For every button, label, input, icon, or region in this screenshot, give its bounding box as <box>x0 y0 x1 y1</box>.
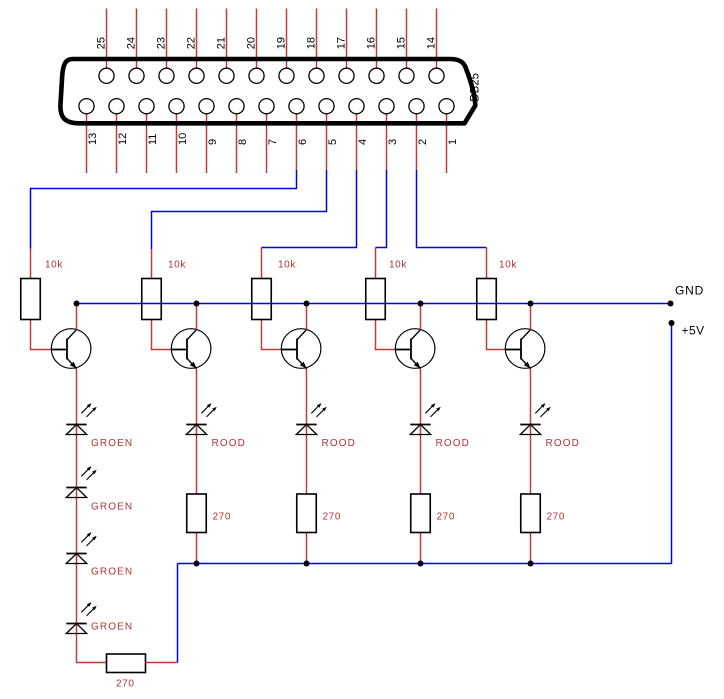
svg-text:1: 1 <box>447 139 459 145</box>
pin 2 <box>409 99 424 114</box>
wire 10k top lead column 5 <box>486 248 488 279</box>
wire emitter column 2 down to +5V bus <box>196 369 198 564</box>
wire pin 5 to 10k resistor column 2 <box>152 170 327 249</box>
svg-text:10k: 10k <box>168 260 186 271</box>
wire pin 12 stub <box>116 106 118 173</box>
svg-text:+5V: +5V <box>682 324 705 338</box>
svg-text:ROOD: ROOD <box>212 438 246 449</box>
wire pin 8 stub <box>236 106 238 173</box>
node junction GND bus <box>418 301 424 307</box>
node junction GND bus <box>194 301 200 307</box>
wire pin 10 stub <box>176 106 178 173</box>
svg-text:23: 23 <box>155 37 167 49</box>
resistor 270 column 4 <box>411 494 431 533</box>
LED D1d green <box>66 624 86 634</box>
LED D5 red <box>520 425 540 435</box>
svg-text:GROEN: GROEN <box>91 502 133 513</box>
wire pin 6 stub <box>296 106 298 170</box>
pin 6 <box>289 99 304 114</box>
wire 10k bottom to base Q1 <box>31 320 52 350</box>
wire emitter column 4 down to +5V bus <box>420 369 422 564</box>
wire pin 4 stub <box>356 106 358 170</box>
svg-text:ROOD: ROOD <box>436 438 470 449</box>
svg-text:270: 270 <box>323 512 342 523</box>
wire collector Q2 to GND bus <box>196 304 198 330</box>
LED D2 red <box>186 425 206 435</box>
svg-text:10: 10 <box>177 133 189 145</box>
node GND terminal <box>668 301 674 307</box>
svg-text:10k: 10k <box>278 260 296 271</box>
svg-text:10k: 10k <box>389 260 407 271</box>
node junction +5V bus <box>418 561 424 567</box>
resistor 270 column 2 <box>187 494 207 533</box>
pin 7 <box>259 99 274 114</box>
wire pin 14 stub <box>436 9 438 76</box>
transistor Q2 <box>171 329 211 369</box>
wire pin 13 stub <box>86 106 88 173</box>
resistor 10k column 4 <box>366 279 386 320</box>
svg-text:270: 270 <box>116 679 135 690</box>
svg-text:12: 12 <box>117 133 129 145</box>
pin 11 <box>139 99 154 114</box>
svg-text:20: 20 <box>245 37 257 49</box>
wire pin 2 stub <box>416 106 418 170</box>
svg-text:6: 6 <box>297 139 309 145</box>
wire resistor 270 column 1 to +5V bus <box>146 662 178 664</box>
pin 22 <box>189 68 204 83</box>
svg-text:DB25: DB25 <box>470 73 482 102</box>
wire pin 9 stub <box>206 106 208 173</box>
node junction GND bus <box>74 301 80 307</box>
wire 10k bottom to base Q3 <box>262 320 282 350</box>
svg-text:GND: GND <box>675 284 704 298</box>
LED D4 red <box>410 425 430 435</box>
wire pin 4 to 10k resistor column 3 <box>262 170 357 248</box>
pin 13 <box>79 99 94 114</box>
pin 19 <box>279 68 294 83</box>
wire 10k bottom to base Q2 <box>152 320 172 350</box>
wire collector Q4 to GND bus <box>420 304 422 330</box>
wire collector Q3 to GND bus <box>306 304 308 330</box>
wire pin 19 stub <box>286 9 288 76</box>
wire collector Q5 to GND bus <box>530 304 532 330</box>
wire +5V bus <box>178 323 672 564</box>
svg-text:270: 270 <box>437 512 456 523</box>
LED D1a green <box>66 425 86 435</box>
svg-text:ROOD: ROOD <box>322 438 356 449</box>
svg-text:19: 19 <box>275 37 287 49</box>
wire pin 22 stub <box>196 9 198 76</box>
wire 10k top lead column 4 <box>375 248 377 279</box>
node junction +5V bus <box>304 561 310 567</box>
pin 9 <box>199 99 214 114</box>
LED D3 red <box>296 425 316 435</box>
wire pin 23 stub <box>166 9 168 76</box>
svg-text:14: 14 <box>425 37 437 49</box>
resistor 10k column 2 <box>142 279 162 320</box>
svg-text:270: 270 <box>213 512 232 523</box>
wire pin 6 to 10k resistor column 1 <box>31 170 297 249</box>
svg-text:21: 21 <box>215 37 227 49</box>
pin 8 <box>229 99 244 114</box>
wire pin 25 stub <box>106 9 108 76</box>
pin 10 <box>169 99 184 114</box>
svg-text:10k: 10k <box>45 260 63 271</box>
svg-text:24: 24 <box>125 37 137 49</box>
svg-text:18: 18 <box>305 37 317 49</box>
resistor 10k column 3 <box>252 279 272 320</box>
pin 16 <box>369 68 384 83</box>
pin 1 <box>439 99 454 114</box>
svg-text:GROEN: GROEN <box>91 438 133 449</box>
svg-text:270: 270 <box>547 512 566 523</box>
node +5V terminal <box>669 320 675 326</box>
wire pin 2 to 10k resistor column 5 <box>417 170 487 248</box>
wire 10k top lead column 1 <box>30 249 32 279</box>
pin 23 <box>159 68 174 83</box>
node junction GND bus <box>304 301 310 307</box>
transistor Q1 <box>51 329 91 369</box>
resistor 270 column 3 <box>297 494 317 533</box>
wire pin 21 stub <box>226 9 228 76</box>
svg-text:17: 17 <box>335 37 347 49</box>
LED D1b green <box>66 488 86 498</box>
svg-text:GROEN: GROEN <box>91 567 133 578</box>
pin 4 <box>349 99 364 114</box>
pin 14 <box>429 68 444 83</box>
svg-text:ROOD: ROOD <box>546 438 580 449</box>
svg-text:4: 4 <box>357 139 369 145</box>
wire pin 3 stub <box>386 106 388 170</box>
wire pin 18 stub <box>316 9 318 76</box>
svg-text:16: 16 <box>365 37 377 49</box>
transistor Q4 <box>395 329 435 369</box>
wire 10k bottom to base Q5 <box>487 320 506 350</box>
wire emitter column 3 down to +5V bus <box>306 369 308 564</box>
wire pin 17 stub <box>346 9 348 76</box>
pin 20 <box>249 68 264 83</box>
pin 12 <box>109 99 124 114</box>
pin 24 <box>129 68 144 83</box>
wire pin 1 stub <box>446 106 448 173</box>
wire collector Q1 to GND bus <box>76 304 78 330</box>
wire pin 16 stub <box>376 9 378 76</box>
svg-text:5: 5 <box>327 139 339 145</box>
wire emitter column 5 down to +5V bus <box>530 369 532 564</box>
svg-text:3: 3 <box>387 139 399 145</box>
wire 10k top lead column 2 <box>151 249 153 279</box>
wire pin 7 stub <box>266 106 268 173</box>
pin 18 <box>309 68 324 83</box>
svg-text:8: 8 <box>237 139 249 145</box>
svg-text:22: 22 <box>185 37 197 49</box>
LED D1c green <box>66 554 86 564</box>
resistor 10k column 5 <box>477 279 497 320</box>
connector J1 DB25 body <box>60 59 475 123</box>
wire GND bus <box>77 303 671 305</box>
pin 5 <box>319 99 334 114</box>
wire pin 5 stub <box>326 106 328 170</box>
pin 3 <box>379 99 394 114</box>
svg-text:GROEN: GROEN <box>91 622 133 633</box>
svg-text:9: 9 <box>207 139 219 145</box>
wire pin 24 stub <box>136 9 138 76</box>
pin 25 <box>99 68 114 83</box>
node junction GND bus <box>528 301 534 307</box>
node junction +5V bus <box>528 561 534 567</box>
wire pin 15 stub <box>406 9 408 76</box>
wire emitter column 1 chain down to 270 resistor <box>77 369 108 663</box>
wire pin 20 stub <box>256 9 258 76</box>
pin 15 <box>399 68 414 83</box>
resistor 270 column 1 <box>107 654 146 673</box>
wire pin 3 to 10k resistor column 4 <box>376 170 387 248</box>
pin 17 <box>339 68 354 83</box>
resistor 270 column 5 <box>521 494 541 533</box>
pin 21 <box>219 68 234 83</box>
svg-text:13: 13 <box>87 133 99 145</box>
wire 10k bottom to base Q4 <box>376 320 396 350</box>
svg-text:15: 15 <box>395 37 407 49</box>
transistor Q3 <box>281 329 321 369</box>
svg-text:7: 7 <box>267 139 279 145</box>
wire pin 11 stub <box>146 106 148 173</box>
wire 10k top lead column 3 <box>261 248 263 279</box>
svg-text:10k: 10k <box>499 260 517 271</box>
node junction +5V bus <box>194 561 200 567</box>
svg-text:11: 11 <box>147 134 159 145</box>
svg-text:2: 2 <box>417 139 429 145</box>
resistor 10k column 1 <box>21 279 41 320</box>
svg-text:25: 25 <box>95 37 107 49</box>
transistor Q5 <box>505 329 545 369</box>
